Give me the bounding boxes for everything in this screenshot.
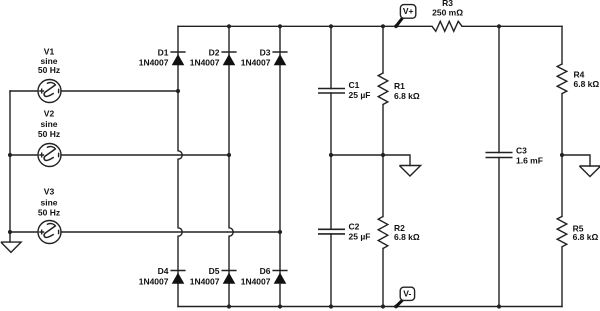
wire left common column to ground xyxy=(9,91,11,242)
node bottom rail C3 dot xyxy=(497,304,501,308)
svg-text:25 µF: 25 µF xyxy=(349,90,371,100)
wire D2/D5 column (phase B node) with hop over V3 wire xyxy=(229,26,233,306)
svg-text:1N4007: 1N4007 xyxy=(190,58,220,68)
svg-text:25 µF: 25 µF xyxy=(349,232,371,242)
node left column V3 tap dot xyxy=(8,230,12,234)
svg-text:6.8 kΩ: 6.8 kΩ xyxy=(394,232,420,242)
wire V3 output to phase C node xyxy=(61,231,280,233)
node bottom rail C2 dot xyxy=(329,304,333,308)
svg-text:1.6 mF: 1.6 mF xyxy=(516,155,543,165)
node left column V2 tap dot xyxy=(8,153,12,157)
svg-text:C3: C3 xyxy=(516,146,527,156)
wire R4/R5 column xyxy=(561,26,563,306)
diode D5 1N4007 xyxy=(221,271,236,284)
node mid rail R1 dot xyxy=(381,153,385,157)
diode D3 1N4007 xyxy=(272,52,287,65)
svg-text:1N4007: 1N4007 xyxy=(241,276,271,286)
svg-text:1N4007: 1N4007 xyxy=(139,58,169,68)
node phase B junction dot xyxy=(227,153,231,157)
resistor R5 6.8k xyxy=(557,216,567,246)
svg-text:D6: D6 xyxy=(260,266,271,276)
capacitor C1 25uF xyxy=(318,89,345,94)
svg-text:V+: V+ xyxy=(403,6,414,16)
node R4/R5 midpoint dot xyxy=(560,153,564,157)
label D2 xyxy=(190,47,220,67)
label R3 xyxy=(432,0,463,18)
svg-text:sine: sine xyxy=(40,119,57,129)
node top rail D3 dot xyxy=(278,24,282,28)
label D4 xyxy=(139,266,169,286)
svg-text:R4: R4 xyxy=(574,69,585,79)
capacitor C2 25uF xyxy=(318,229,345,234)
svg-text:1N4007: 1N4007 xyxy=(139,276,169,286)
svg-text:6.8 kΩ: 6.8 kΩ xyxy=(574,79,600,89)
wire top rail left segment V+ net xyxy=(178,25,432,27)
wire V3 negative tap xyxy=(10,231,38,233)
label C3 xyxy=(516,146,543,166)
source V1 sine 50Hz xyxy=(38,80,61,103)
label R2 xyxy=(394,223,420,242)
label R5 xyxy=(573,224,599,242)
label D5 xyxy=(190,266,220,286)
source V3 sine 50Hz xyxy=(38,221,61,244)
label C1 xyxy=(349,80,371,100)
node top rail C3 dot xyxy=(497,24,501,28)
diode D2 1N4007 xyxy=(221,52,236,65)
label D6 xyxy=(241,266,271,286)
node bottom rail D5 dot xyxy=(227,304,231,308)
wire V1 output to phase A node xyxy=(61,90,178,92)
resistor R4 6.8k xyxy=(557,64,567,94)
wire R4-R5 midpoint to ground xyxy=(562,155,590,166)
svg-text:6.8 kΩ: 6.8 kΩ xyxy=(394,91,420,101)
svg-text:R1: R1 xyxy=(394,81,405,91)
ground right (R4/R5 midpoint) xyxy=(579,166,600,177)
wire V2 negative tap xyxy=(10,154,38,156)
svg-text:50 Hz: 50 Hz xyxy=(38,65,60,75)
label C2 xyxy=(349,222,371,242)
label V3 xyxy=(38,186,60,217)
wire top rail right segment xyxy=(462,25,562,27)
diode D6 1N4007 xyxy=(272,271,287,284)
resistor R2 6.8k xyxy=(378,217,388,249)
svg-text:6.8 kΩ: 6.8 kΩ xyxy=(573,232,599,242)
label R1 xyxy=(394,81,420,101)
source V2 sine 50Hz xyxy=(38,144,61,167)
label D1 xyxy=(139,47,169,67)
node bottom rail R2 dot xyxy=(381,304,385,308)
svg-text:250 mΩ: 250 mΩ xyxy=(432,8,463,18)
label V2 xyxy=(38,109,60,139)
diode D1 1N4007 xyxy=(170,52,185,65)
svg-text:D1: D1 xyxy=(158,47,169,57)
svg-text:V-: V- xyxy=(403,289,411,299)
capacitor C3 1.6mF xyxy=(486,153,513,158)
node mid rail C1 dot xyxy=(329,153,333,157)
svg-text:V2: V2 xyxy=(44,109,55,119)
resistor R3 250 mOhm xyxy=(432,21,462,31)
wire R1/R2 column xyxy=(382,26,384,306)
svg-text:D2: D2 xyxy=(209,47,220,57)
node bottom rail D6 dot xyxy=(278,304,282,308)
wire C3 column xyxy=(498,26,500,306)
label R4 xyxy=(574,69,600,89)
resistor R1 6.8k xyxy=(378,73,388,105)
svg-text:50 Hz: 50 Hz xyxy=(38,129,60,139)
net flag V+ xyxy=(394,5,416,29)
node top rail R1 dot xyxy=(381,24,385,28)
svg-text:D5: D5 xyxy=(209,266,220,276)
ground mid (C/R midpoint) xyxy=(399,166,420,177)
net flag V- xyxy=(394,287,415,308)
node phase A junction dot xyxy=(176,89,180,93)
node phase C junction dot xyxy=(278,230,282,234)
wire V1 negative to left common column xyxy=(10,90,38,92)
svg-text:sine: sine xyxy=(40,198,57,208)
node top rail D2 dot xyxy=(227,24,231,28)
wire mid rail C1-C2 / R1-R2 midpoint to ground xyxy=(331,155,410,166)
svg-text:V3: V3 xyxy=(44,186,55,196)
wire C1/C2 column xyxy=(330,26,332,306)
diode D4 1N4007 xyxy=(170,271,185,284)
svg-text:1N4007: 1N4007 xyxy=(190,276,220,286)
wire V2 output to phase B node xyxy=(61,154,229,156)
svg-text:1N4007: 1N4007 xyxy=(241,58,271,68)
svg-text:D3: D3 xyxy=(260,47,271,57)
label V1 xyxy=(38,46,60,74)
svg-text:D4: D4 xyxy=(158,266,169,276)
label D3 xyxy=(241,47,271,67)
svg-text:50 Hz: 50 Hz xyxy=(38,208,60,218)
node top rail C1 dot xyxy=(329,24,333,28)
wire D3/D6 column (phase C node) xyxy=(279,26,281,306)
svg-text:C2: C2 xyxy=(349,222,360,232)
svg-text:C1: C1 xyxy=(349,80,360,90)
wire D1/D4 column (phase A node) with hops over V2,V3 wires xyxy=(178,26,182,306)
ground left (sources common) xyxy=(1,242,21,252)
wire bottom rail V- net xyxy=(178,306,562,308)
